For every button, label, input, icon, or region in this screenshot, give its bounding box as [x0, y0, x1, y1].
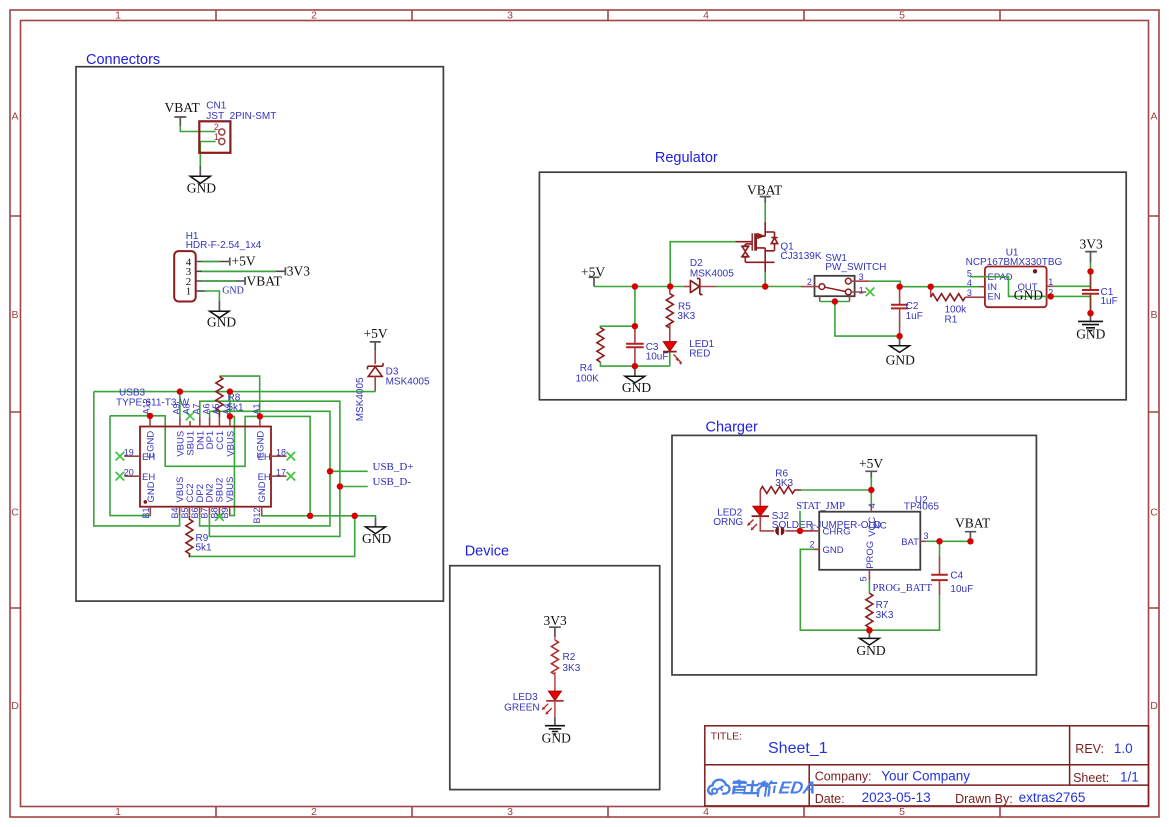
svg-text:1: 1	[115, 806, 121, 818]
resistor R4 100K	[576, 328, 604, 385]
svg-text:B1: B1	[141, 508, 151, 519]
wire SW1 pin3 to C2	[869, 281, 900, 287]
CONNECTORS SECTION	[94, 100, 430, 557]
svg-text:C: C	[11, 507, 19, 519]
svg-text:GND: GND	[823, 545, 844, 556]
wire 3V3 to C1	[1090, 263, 1092, 272]
wire H1 pin2 to VBAT	[196, 280, 245, 282]
node 3V3 (H1)	[285, 263, 310, 278]
pin names (USB bottom)	[146, 477, 268, 503]
svg-text:3K3: 3K3	[677, 311, 695, 322]
svg-text:B12: B12	[252, 508, 262, 524]
node VBAT (regulator)	[747, 182, 783, 203]
jumper SJ2 SOLDER-JUMPER-OLD	[772, 511, 881, 536]
ground (USB)	[362, 518, 391, 546]
switch SW1 PW_SWITCH	[801, 253, 886, 302]
resistor R1 100k	[931, 287, 985, 326]
svg-text:GND: GND	[542, 730, 571, 745]
svg-text:18: 18	[276, 447, 286, 457]
wire STAT_JMP stub	[799, 511, 801, 531]
svg-text:NC: NC	[873, 521, 887, 532]
svg-text:EH: EH	[258, 472, 271, 483]
wire H1 pin3 to 3V3	[196, 270, 286, 272]
svg-text:1: 1	[186, 286, 192, 298]
svg-text:GND: GND	[362, 531, 391, 546]
svg-text:GND: GND	[622, 380, 651, 395]
connector CN1	[199, 100, 276, 153]
wire U2 GND to ground loop	[800, 549, 869, 630]
svg-text:Sheet_1: Sheet_1	[768, 740, 828, 757]
top pin stubs	[150, 417, 260, 427]
svg-text:2: 2	[807, 277, 812, 287]
junction dots (connectors)	[147, 388, 358, 519]
svg-text:EH: EH	[258, 452, 271, 463]
wire U1 GND to C1	[1051, 295, 1091, 297]
svg-text:4: 4	[967, 278, 972, 288]
wire SJ2 to U2 CHRG	[800, 530, 813, 532]
svg-text:USB_D-: USB_D-	[373, 476, 412, 488]
svg-text:Regulator: Regulator	[655, 150, 718, 166]
svg-text:GND: GND	[146, 481, 157, 502]
node VBAT (CN1)	[165, 100, 201, 126]
capacitor C1 1uF	[1082, 272, 1118, 314]
ground (C1, earth style)	[1076, 313, 1105, 341]
svg-text:Drawn By:: Drawn By:	[955, 792, 1013, 806]
junction dots (charger)	[797, 487, 974, 634]
pin numbers (USB top)	[142, 398, 262, 414]
pin names (USB sides EH)	[142, 452, 271, 483]
svg-text:R1: R1	[945, 315, 958, 326]
wire VBAT to Q1 drain	[764, 203, 766, 222]
svg-text:B: B	[11, 309, 18, 321]
wire +5V to R6 and U2 VCC	[801, 478, 872, 505]
svg-text:17: 17	[276, 467, 286, 477]
svg-text:RED: RED	[689, 348, 710, 359]
svg-text:B6: B6	[190, 508, 200, 519]
svg-text:EDA: EDA	[778, 778, 818, 798]
svg-text:LED3: LED3	[513, 692, 538, 703]
wire D2 cathode to SW1 pin2	[717, 286, 802, 288]
bottom pin stubs	[150, 507, 261, 516]
svg-text:VBAT: VBAT	[165, 100, 201, 115]
LED LED2 ORNG	[713, 490, 774, 531]
svg-text:1: 1	[810, 521, 815, 531]
svg-text:VBAT: VBAT	[747, 182, 783, 197]
svg-text:HDR-F-2.54_1x4: HDR-F-2.54_1x4	[186, 240, 262, 251]
svg-text:REV:: REV:	[1075, 742, 1104, 756]
ground (C3)	[622, 366, 651, 395]
wire CN1 pin1 to GND	[200, 142, 215, 167]
svg-text:5: 5	[859, 576, 869, 581]
svg-text:D: D	[11, 700, 19, 712]
svg-text:PROG: PROG	[865, 541, 876, 569]
svg-text:C: C	[1150, 507, 1158, 519]
resistor R6 3K3	[760, 468, 800, 493]
DEVICE SECTION	[504, 613, 581, 746]
wire C4 bottom to ground loop	[869, 595, 939, 630]
node +5V (regulator)	[581, 264, 605, 286]
svg-text:STAT_JMP: STAT_JMP	[796, 501, 845, 512]
wire U1 OUT to C1	[1053, 285, 1091, 287]
svg-text:GND: GND	[222, 286, 244, 297]
svg-text:B8: B8	[209, 508, 219, 519]
side pin stubs	[124, 456, 286, 476]
svg-text:4: 4	[703, 806, 709, 818]
wire Q1 gate	[670, 242, 736, 287]
svg-text:A1: A1	[252, 403, 262, 414]
svg-text:GND: GND	[856, 643, 885, 658]
svg-text:3: 3	[924, 531, 929, 541]
svg-text:CJ3139K: CJ3139K	[780, 251, 821, 262]
device box	[450, 566, 660, 790]
node VBAT (H1)	[245, 273, 282, 288]
svg-text:1: 1	[1048, 277, 1053, 287]
svg-text:GND: GND	[207, 315, 236, 330]
REGULATOR SECTION	[576, 182, 1118, 394]
ground (device, earth style)	[542, 717, 571, 745]
ground (C2)	[886, 336, 915, 368]
svg-text:TITLE:: TITLE:	[711, 731, 743, 743]
svg-text:A9: A9	[172, 403, 182, 414]
svg-text:2: 2	[311, 806, 317, 818]
svg-text:100K: 100K	[576, 373, 600, 384]
svg-text:5k1: 5k1	[196, 542, 213, 553]
svg-text:PROG_BATT: PROG_BATT	[873, 583, 933, 594]
charger box	[672, 435, 1036, 675]
svg-text:EH: EH	[142, 452, 155, 463]
IC U1 NCP167BMX330TBG	[966, 247, 1063, 307]
wire VBAT to CN1 pin2	[180, 126, 215, 132]
svg-text:CHRG: CHRG	[823, 526, 851, 537]
svg-text:19: 19	[124, 447, 134, 457]
capacitor C3 10uF	[626, 326, 668, 366]
node 3V3 (device)	[544, 613, 567, 637]
svg-text:extras2765: extras2765	[1019, 790, 1086, 805]
wire C2 to U1 IN	[900, 286, 979, 288]
svg-text:ORNG: ORNG	[713, 517, 743, 528]
svg-text:VBUS: VBUS	[225, 477, 236, 503]
svg-text:Sheet:: Sheet:	[1073, 771, 1109, 785]
resistor R7 3K3	[866, 593, 894, 630]
svg-text:EN: EN	[988, 291, 1001, 302]
svg-text:10uF: 10uF	[646, 351, 669, 362]
svg-text:A8: A8	[182, 403, 192, 414]
svg-text:Date:: Date:	[815, 792, 845, 806]
svg-text:3K3: 3K3	[563, 663, 581, 674]
svg-text:A6: A6	[201, 403, 211, 414]
svg-text:10uF: 10uF	[950, 584, 973, 595]
svg-text:GND: GND	[257, 481, 268, 502]
svg-text:+5V: +5V	[232, 254, 256, 269]
connectors box	[76, 67, 443, 601]
capacitor C2 1uF	[891, 287, 923, 336]
TITLE BLOCK	[705, 726, 1149, 806]
node VBAT (charger)	[955, 516, 991, 542]
svg-text:GND: GND	[1076, 327, 1105, 342]
svg-text:3: 3	[859, 272, 864, 282]
svg-text:B5: B5	[180, 508, 190, 519]
wire R4 C3 branch	[600, 287, 669, 367]
svg-text:BAT: BAT	[901, 537, 919, 548]
svg-text:5: 5	[899, 10, 905, 22]
svg-text:1uF: 1uF	[906, 311, 923, 322]
connector H1	[174, 231, 262, 302]
wire U2 BAT to VBAT	[926, 540, 970, 542]
svg-text:CN1: CN1	[206, 100, 226, 111]
node +5V (H1)	[230, 254, 256, 269]
svg-text:A: A	[1150, 111, 1157, 123]
wire +5V rail	[594, 286, 684, 288]
diode D2 MSK4005	[684, 258, 735, 295]
svg-text:Connectors: Connectors	[86, 52, 160, 68]
resistor R5 3K3	[666, 287, 695, 342]
svg-text:2: 2	[810, 540, 815, 550]
svg-text:3: 3	[967, 288, 972, 298]
ground (CN1)	[187, 176, 216, 195]
svg-text:4: 4	[867, 503, 877, 508]
wire GND net (USB)	[110, 416, 376, 557]
wire SW1 mount to GND	[820, 302, 900, 337]
svg-text:MSK4005: MSK4005	[690, 268, 734, 279]
diode D3 MSK4005	[355, 351, 430, 421]
svg-text:2: 2	[214, 122, 219, 132]
svg-text:Charger: Charger	[706, 420, 759, 436]
transistor Q1 CJ3139K	[736, 222, 778, 272]
node 3V3 (regulator)	[1080, 236, 1103, 263]
wire H1 pin1 to GND	[196, 290, 205, 292]
svg-text:A4: A4	[222, 403, 232, 414]
svg-text:C4: C4	[950, 571, 963, 582]
CHARGER SECTION	[713, 456, 991, 658]
svg-text:3V3: 3V3	[544, 613, 567, 628]
resistor R8 5k1	[216, 376, 260, 417]
svg-text:JST_2PIN-SMT: JST_2PIN-SMT	[206, 111, 276, 122]
svg-text:GND: GND	[187, 180, 216, 195]
svg-text:CC1: CC1	[215, 431, 226, 450]
svg-text:SBU2: SBU2	[214, 478, 225, 503]
svg-text:MSK4005: MSK4005	[355, 377, 366, 421]
regulator box	[539, 172, 1126, 400]
svg-text:TP4065: TP4065	[904, 501, 939, 512]
no-connect X marks (A8,B8,19,20,18,17)	[116, 412, 296, 521]
svg-text:R2: R2	[563, 652, 576, 663]
svg-text:GREEN: GREEN	[504, 702, 540, 713]
svg-text:1.0: 1.0	[1114, 741, 1133, 756]
pin numbers (USB sides)	[124, 447, 286, 477]
svg-text:3V3: 3V3	[287, 263, 310, 278]
wire H1 pin4 to +5V	[196, 261, 230, 263]
svg-text:+5V: +5V	[364, 326, 388, 341]
node +5V (charger)	[859, 456, 883, 478]
svg-text:3K3: 3K3	[876, 610, 894, 621]
svg-text:2023-05-13: 2023-05-13	[862, 790, 931, 805]
svg-text:1: 1	[859, 285, 864, 295]
svg-text:EH: EH	[142, 472, 155, 483]
pin names (USB top)	[146, 431, 267, 459]
ground (charger)	[856, 630, 885, 658]
svg-text:2: 2	[311, 10, 317, 22]
connector USB3 TYPE-611-T3-W	[116, 388, 287, 516]
svg-text:4: 4	[703, 10, 709, 22]
LED LED3 GREEN	[504, 691, 563, 717]
svg-text:MSK4005: MSK4005	[386, 377, 430, 388]
ground (H1)	[207, 311, 236, 329]
svg-text:3: 3	[507, 10, 513, 22]
svg-text:Company:: Company:	[815, 769, 872, 783]
svg-text:1uF: 1uF	[1101, 296, 1118, 307]
svg-text:Device: Device	[465, 544, 509, 560]
svg-text:A5: A5	[211, 403, 221, 414]
IC U2 TP4065	[810, 495, 940, 582]
svg-text:+5V: +5V	[859, 456, 883, 471]
node +5V (D3)	[364, 326, 388, 352]
wire Q1 source to rail	[764, 271, 766, 286]
svg-text:3: 3	[507, 806, 513, 818]
svg-text:1: 1	[214, 132, 219, 142]
wire USB_D- net	[200, 401, 368, 536]
junction dots (regulator)	[632, 268, 1094, 369]
wire EPAD to GND (U1)	[969, 277, 1050, 297]
wire USB_D+ net	[200, 411, 368, 526]
svg-text:PW_SWITCH: PW_SWITCH	[825, 262, 886, 273]
svg-text:B7: B7	[200, 508, 210, 519]
svg-text:A12: A12	[142, 398, 152, 414]
svg-text:USB_D+: USB_D+	[373, 461, 414, 473]
svg-text:A7: A7	[192, 403, 202, 414]
svg-text:1/1: 1/1	[1120, 770, 1139, 785]
svg-text:D: D	[1150, 700, 1158, 712]
svg-text:VBAT: VBAT	[955, 516, 991, 531]
svg-text:5: 5	[899, 806, 905, 818]
svg-text:Your Company: Your Company	[881, 768, 970, 783]
svg-text:A: A	[11, 111, 18, 123]
LED LED1 RED	[663, 339, 715, 365]
svg-text:VBUS: VBUS	[226, 431, 237, 457]
svg-text:3V3: 3V3	[1080, 236, 1103, 251]
svg-text:B9: B9	[220, 508, 230, 519]
capacitor C4 10uF	[931, 541, 973, 595]
svg-text:B4: B4	[170, 508, 180, 519]
SECTION BOXES	[76, 67, 1126, 790]
svg-text:B: B	[1150, 309, 1157, 321]
wire PROG to R7	[868, 581, 870, 593]
no-connect X (SW1 pin1)	[866, 288, 875, 297]
svg-text:GND: GND	[1014, 288, 1043, 303]
svg-text:20: 20	[124, 467, 134, 477]
svg-text:3K3: 3K3	[775, 478, 793, 489]
wire VBUS net	[94, 392, 375, 526]
pin numbers (USB bottom)	[141, 508, 262, 524]
svg-text:100k: 100k	[945, 304, 968, 315]
svg-text:GND: GND	[886, 353, 915, 368]
resistor R2 3K3	[551, 637, 580, 691]
logo JLC EDA	[708, 778, 817, 798]
svg-text:VBAT: VBAT	[247, 273, 283, 288]
resistor R9 5k1	[186, 516, 212, 558]
svg-text:1: 1	[115, 10, 121, 22]
